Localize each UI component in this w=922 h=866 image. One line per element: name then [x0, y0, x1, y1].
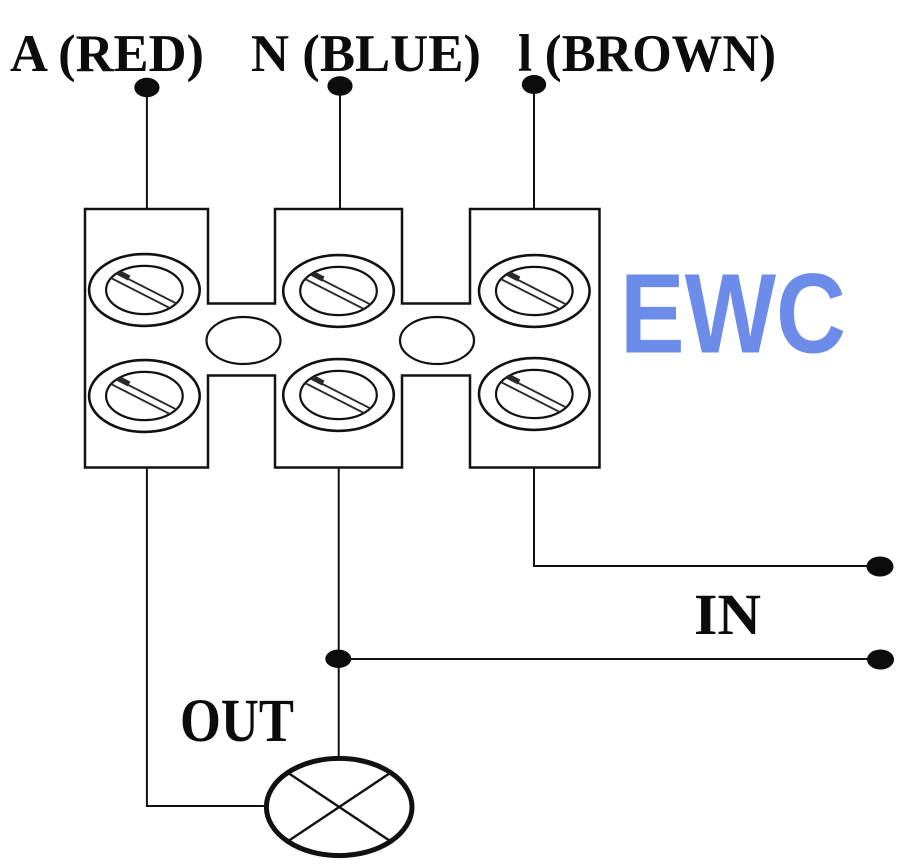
wire from node N to terminal block [339, 86, 341, 209]
svg-text:OUT: OUT [180, 688, 294, 755]
lamp LP1 [266, 758, 412, 855]
screw S3 (terminal 2 top) [283, 255, 394, 327]
node A terminal dot [134, 78, 159, 98]
IN top terminal dot [867, 557, 894, 577]
terminal block TB1 outline [85, 209, 600, 468]
wire from terminal 3 to IN top [534, 468, 880, 567]
wire from node L to terminal block [533, 85, 535, 209]
wire from node A to terminal block [146, 88, 148, 209]
screw S1 (terminal 1 top) [89, 254, 200, 326]
junction node dot [325, 650, 351, 668]
svg-text:IN: IN [694, 582, 761, 647]
wire from junction to IN bottom [339, 658, 880, 660]
svg-text:A (RED): A (RED) [10, 25, 204, 83]
screw S5 (terminal 3 top) [479, 255, 590, 327]
svg-text:N (BLUE): N (BLUE) [251, 25, 481, 83]
screw S2 (terminal 1 bottom) [89, 360, 200, 432]
svg-text:l (BROWN): l (BROWN) [518, 25, 776, 83]
wire from terminal 2 down to lamp [338, 468, 340, 759]
screw S4 (terminal 2 bottom) [283, 359, 394, 431]
wire from terminal 1 down [147, 468, 267, 807]
node N terminal dot [327, 76, 352, 96]
node L terminal dot [522, 75, 546, 94]
svg-text:EWC: EWC [620, 251, 846, 377]
IN bottom terminal dot [867, 650, 894, 670]
bridge oval left [207, 317, 281, 364]
screw S6 (terminal 3 bottom) [479, 358, 590, 430]
bridge oval right [400, 317, 474, 364]
